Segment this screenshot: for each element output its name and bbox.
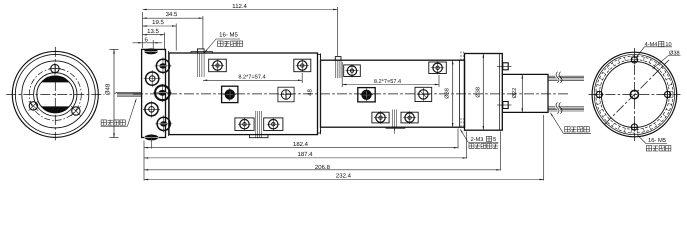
flange hole: top edge ellipse	[144, 48, 159, 55]
end cap bottom bolt	[497, 102, 512, 109]
flange screw hole D (open)	[143, 101, 160, 118]
dimension 112.4	[143, 8, 338, 10]
sec1 top mounting pad 1	[209, 59, 227, 72]
section-2 bottom terminal	[386, 110, 405, 135]
left end view: bolt circle (dash-dot)	[29, 68, 81, 120]
ext line: 206.8 (cap right)	[500, 132, 502, 171]
left view: M5 hole top	[49, 63, 61, 75]
left end view: horizontal centerline	[6, 93, 104, 95]
side view: section-2 body	[321, 60, 465, 127]
svg-text:4-M4: 4-M4	[645, 42, 658, 48]
stator lead wires (upper bundle)	[548, 72, 584, 83]
ext line: 112.4 (sec2 port)	[336, 7, 338, 56]
svg-text:112.4: 112.4	[232, 3, 247, 10]
svg-text:Ø22: Ø22	[512, 88, 518, 99]
sec1 mid pad (open hole)	[278, 87, 294, 102]
right view: M4 hole top	[630, 55, 640, 65]
section-1 top collar step	[191, 52, 213, 53]
section-1 / section-2 joint ring	[318, 55, 321, 134]
right end view: inner dashed ring (M4 bolt circle)	[599, 60, 669, 130]
ext line: 187.4 (cap left)	[466, 132, 468, 159]
ext line: flange left edge (top datum)	[142, 12, 144, 48]
left end view: housing step circle	[22, 61, 89, 128]
ext line: bottom-left datum	[143, 141, 145, 181]
end cap top bolt	[497, 63, 512, 70]
right end view: housing inner circle	[601, 62, 667, 128]
right end view: diagonal centerline	[605, 60, 669, 124]
left view: M5 hole lower-left	[29, 101, 39, 111]
2-M3 hidden stop holes (dashed) at cap left edge	[461, 52, 464, 127]
right end view: horizontal centerline	[588, 94, 680, 96]
right view: M4 hole right	[663, 90, 673, 100]
ext line: 19.5	[175, 24, 177, 51]
sec2 bottom pad 2	[401, 111, 418, 124]
dimension 187.4	[144, 157, 467, 159]
dimension Ø38 (end cap)	[482, 54, 484, 131]
svg-text:206.8: 206.8	[315, 164, 331, 171]
svg-text:5: 5	[493, 137, 496, 143]
dimension 6	[133, 42, 163, 44]
svg-text:13.5: 13.5	[147, 28, 159, 35]
dimension 8.2*7=57.4 (section 1)	[301, 73, 303, 83]
right end view: outer circle	[592, 52, 677, 137]
right end view: vertical centerline	[633, 48, 635, 141]
label: 16-M5 rotor port (right view)	[637, 135, 671, 151]
label: 2-M3 depth 5 stator stop hole	[460, 129, 498, 148]
right end view: chamfer circle	[594, 54, 674, 134]
flange screw hole B (open)	[144, 70, 161, 87]
stator lead wires (lower bundle)	[548, 102, 584, 113]
dimension 182.4	[144, 147, 458, 149]
svg-text:8.2*7=57.4: 8.2*7=57.4	[238, 74, 265, 80]
svg-text:2-M3: 2-M3	[471, 137, 484, 143]
dimension 48 (section 1 dia)	[320, 53, 322, 134]
sec2 mid pad (filled hole)	[358, 88, 375, 102]
svg-text:8.2*7=57.4: 8.2*7=57.4	[374, 79, 401, 85]
ext line: 13.5	[164, 33, 166, 51]
ext line: short tick	[151, 141, 153, 149]
dimension 19.5	[143, 25, 177, 27]
left end view: vertical centerline	[54, 47, 56, 140]
svg-text:10: 10	[665, 42, 671, 48]
right view: M4 hole left	[595, 90, 605, 100]
svg-text:182.4: 182.4	[293, 141, 309, 148]
label: Ø38 bolt circle (right view)	[653, 50, 681, 68]
left end view: rotor bore with double-D flats (black segments)	[37, 76, 74, 113]
dimension Ø38 (section 2 dia)	[452, 60, 454, 127]
dimension Ø48 (flange)	[113, 49, 115, 137]
flange center rotor boss (dark)	[153, 84, 171, 102]
ext line: 232.4 (wire break)	[543, 115, 545, 181]
svg-text:187.4: 187.4	[297, 151, 313, 158]
svg-text:Ø48: Ø48	[105, 83, 112, 95]
ext line: 6	[152, 40, 154, 51]
side view: left flange (stator face)	[142, 49, 166, 137]
right end view: center pilot hole	[630, 90, 638, 98]
left end view: chamfer circle	[15, 54, 95, 134]
dimension 34.5	[143, 17, 203, 19]
svg-text:19.5: 19.5	[152, 19, 164, 26]
label: 4-M4 depth 10 (right view)	[636, 41, 672, 58]
ext line: 34.5 (stator port)	[202, 16, 204, 49]
sec2 top pad 2	[429, 61, 447, 74]
section-1 top terminal (stator port)	[198, 49, 205, 77]
ext line: 182.4 (sec2 right)	[457, 129, 459, 149]
side view: section-1 body (stator housing)	[169, 53, 318, 135]
dimension 8.2*7=57.4 (section 2)	[341, 62, 343, 87]
left end view: inner step circle	[34, 73, 77, 116]
label: rotor lead wires (left)	[101, 99, 137, 127]
right end cap	[465, 54, 503, 131]
left end view: outer circle	[12, 51, 98, 137]
svg-text:Ø38: Ø38	[475, 87, 481, 98]
sec1 top mounting pad 2	[294, 59, 311, 72]
dimension Ø22 (shaft)	[521, 74, 523, 112]
svg-text:16- M5: 16- M5	[219, 31, 238, 38]
rotor lead wires (left, exiting flange)	[115, 92, 142, 96]
left view: M5 hole lower-right	[71, 106, 81, 116]
flange hole: bottom edge ellipse	[144, 134, 159, 141]
svg-text:Ø38: Ø38	[669, 50, 680, 56]
label: 16-M5 stator port (section 1)	[205, 31, 243, 52]
side view: main centerline	[133, 93, 569, 95]
flange screw hole A (dark)	[155, 57, 172, 74]
right view: M4 hole bottom	[630, 122, 640, 132]
sec2 bottom pad 1	[372, 111, 389, 124]
section-2 right joint line	[458, 60, 460, 127]
dimension 232.4	[144, 179, 544, 181]
section-2 top terminal	[335, 57, 341, 78]
svg-text:34.5: 34.5	[166, 11, 178, 18]
sec2 mid pad (open hole)	[415, 87, 432, 101]
sec1 mid pad (filled hole)	[222, 86, 238, 102]
right end view: outer dashed ring	[596, 56, 673, 133]
svg-text:16- M5: 16- M5	[648, 137, 666, 144]
svg-text:Ø38: Ø38	[444, 88, 450, 99]
side view: flange inner ring line	[168, 51, 170, 136]
right end view: radial tick ring (16-M5 thread ring)	[596, 56, 673, 133]
dimension 206.8	[144, 169, 501, 171]
dimension 13.5	[143, 34, 165, 36]
flange screw hole E (dark)	[155, 115, 172, 132]
end cap inner face line	[499, 54, 501, 131]
label: stator lead wires (right)	[551, 113, 592, 134]
sec1 bottom pad 1	[235, 118, 254, 131]
svg-text:48: 48	[306, 89, 313, 96]
output shaft (stator lead tube)	[502, 74, 548, 112]
sec1 bottom pad 2	[264, 118, 283, 131]
sec2 top pad 1	[344, 64, 361, 77]
svg-text:232.4: 232.4	[336, 173, 352, 180]
section-1 bottom terminal	[250, 111, 269, 138]
